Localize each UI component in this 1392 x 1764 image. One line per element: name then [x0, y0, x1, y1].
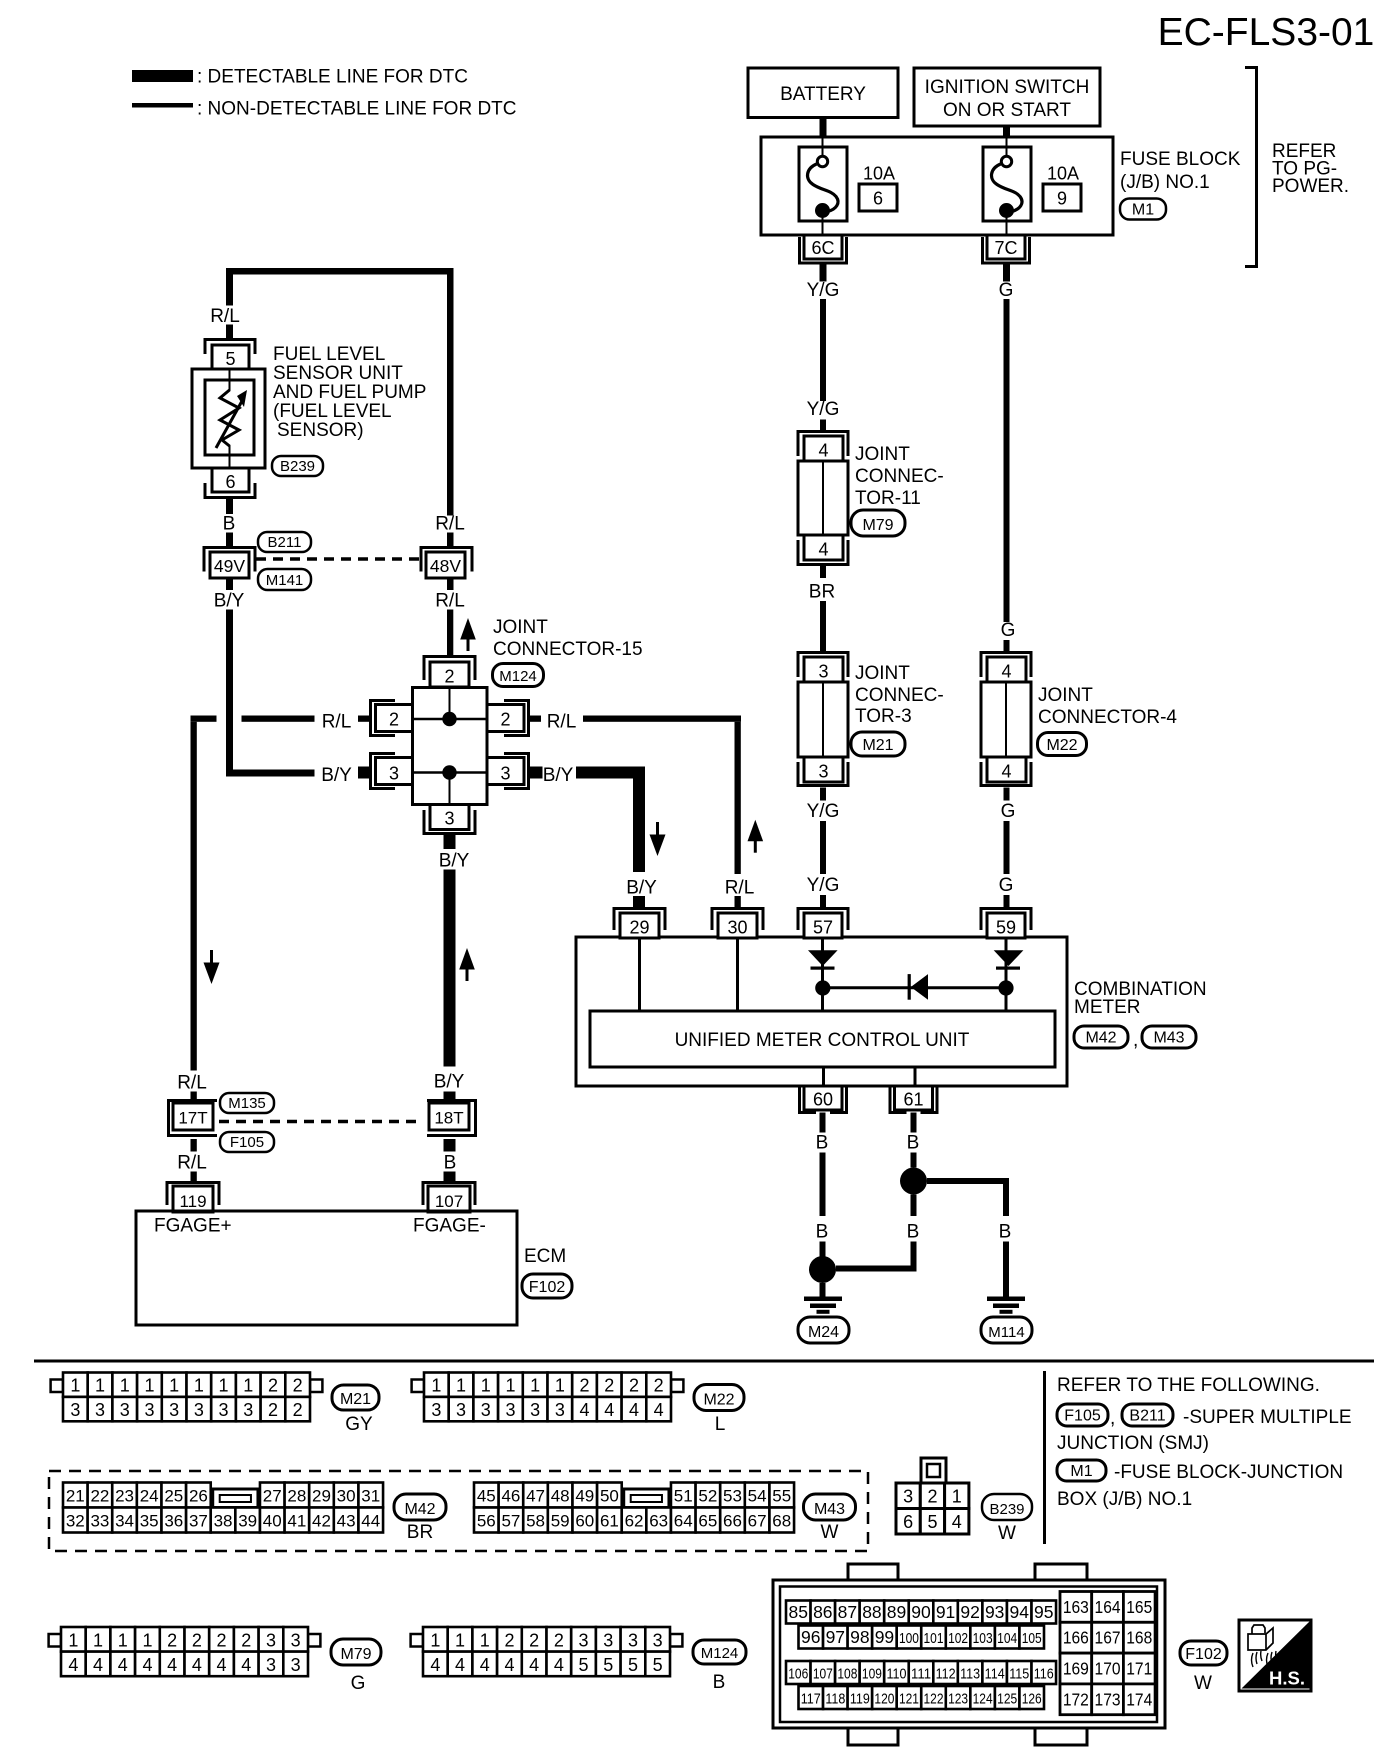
svg-text:119: 119 [179, 1192, 206, 1211]
connector id M1 [1120, 199, 1166, 220]
HS logo box [1239, 1620, 1311, 1691]
svg-text:M124: M124 [701, 1645, 739, 1662]
svg-text:BATTERY: BATTERY [780, 84, 866, 105]
junction dot 59 [998, 980, 1013, 995]
svg-text:2: 2 [293, 1376, 303, 1396]
wire B 60 middle [820, 1153, 826, 1217]
wire battery to fuse block [820, 118, 827, 138]
svg-text:3: 3 [389, 764, 399, 784]
connector 48V [421, 548, 472, 579]
svg-text:1: 1 [118, 1630, 128, 1650]
joint connector-11 top bracket [798, 432, 848, 457]
svg-text:61: 61 [600, 1512, 619, 1531]
svg-text:(J/B) NO.1: (J/B) NO.1 [1120, 172, 1210, 193]
svg-text:2: 2 [268, 1376, 278, 1396]
svg-text:21: 21 [66, 1487, 85, 1506]
svg-text:4: 4 [430, 1655, 440, 1675]
svg-text:88: 88 [862, 1602, 881, 1622]
svg-text:5: 5 [653, 1655, 663, 1675]
meter internal wire 30 [736, 938, 739, 1011]
wire B 61 bottom [911, 1242, 917, 1272]
svg-text:EC-FLS3-01: EC-FLS3-01 [1158, 11, 1375, 54]
svg-text:Y/G: Y/G [807, 280, 840, 301]
svg-text:R/L: R/L [177, 1153, 207, 1174]
wire R/L stub to 17T [191, 1092, 197, 1102]
connector 17T [169, 1101, 218, 1136]
ground symbol M24 [804, 1297, 842, 1314]
joint connector-15 right pin 3 bracket [504, 754, 529, 789]
wire R/L stub to 48V [447, 533, 454, 547]
svg-text:M21: M21 [340, 1391, 371, 1408]
joint connector-11 body [798, 461, 848, 535]
wire label R/L right row [547, 712, 577, 733]
svg-text:5: 5 [225, 349, 235, 369]
svg-text:48V: 48V [430, 556, 461, 576]
connector id F102 ecm [522, 1274, 572, 1298]
svg-text:2: 2 [167, 1630, 177, 1650]
svg-text:120: 120 [874, 1691, 894, 1708]
connector 49V [204, 548, 255, 579]
wire B junction to ground M24 [820, 1283, 826, 1297]
svg-text:93: 93 [985, 1602, 1004, 1622]
svg-text:CONNECTOR-15: CONNECTOR-15 [493, 639, 643, 660]
svg-text:BR: BR [809, 582, 835, 603]
color code BR [407, 1522, 433, 1543]
connector face F102 inner [780, 1587, 1157, 1723]
svg-text:2: 2 [192, 1630, 202, 1650]
color code W b239 [998, 1523, 1016, 1544]
ECM box [136, 1211, 517, 1325]
connector id M22 face [694, 1385, 744, 1411]
svg-text:3: 3 [120, 1400, 130, 1420]
connector 29 [614, 909, 665, 939]
svg-text:106: 106 [788, 1666, 808, 1683]
ignition switch box [914, 68, 1100, 126]
wire B/Y stub below 18T [444, 1139, 456, 1152]
connector id M124 face [693, 1640, 746, 1664]
svg-text:F105: F105 [230, 1134, 264, 1151]
svg-text:METER: METER [1074, 997, 1141, 1018]
svg-text:49V: 49V [214, 556, 245, 576]
svg-text:M79: M79 [862, 517, 893, 534]
svg-text:25: 25 [164, 1487, 183, 1506]
svg-text:2: 2 [927, 1487, 937, 1507]
svg-text:85: 85 [789, 1602, 808, 1622]
svg-text:JOINT: JOINT [1038, 685, 1093, 706]
svg-text:10A: 10A [863, 164, 895, 184]
wire label R/L left row [322, 712, 352, 733]
wire JC-4 bottom stub [1004, 788, 1010, 801]
svg-text:R/L: R/L [435, 514, 465, 535]
svg-text:3: 3 [444, 809, 454, 829]
connector face M42 pin grid [63, 1483, 383, 1533]
svg-text:: DETECTABLE LINE FOR DTC: : DETECTABLE LINE FOR DTC [197, 67, 468, 88]
svg-text:116: 116 [1034, 1666, 1054, 1683]
svg-text:4: 4 [1001, 762, 1011, 782]
joint connector-11 bottom bracket [798, 540, 848, 565]
connector id B239 face [982, 1494, 1032, 1520]
unified meter control unit label [675, 1030, 970, 1051]
arrow down meter 29 [650, 822, 666, 856]
wire label B 61 [907, 1133, 920, 1154]
svg-text:35: 35 [140, 1512, 159, 1531]
svg-text:61: 61 [903, 1090, 923, 1110]
svg-text:4: 4 [167, 1655, 177, 1675]
joint connector-3 pin 3 bottom [804, 757, 843, 782]
svg-text:M43: M43 [1153, 1030, 1184, 1047]
svg-text:38: 38 [214, 1512, 233, 1531]
svg-text:7C: 7C [994, 238, 1017, 258]
svg-text:97: 97 [826, 1627, 845, 1647]
svg-text:F102: F102 [529, 1279, 566, 1296]
svg-text:4: 4 [504, 1655, 514, 1675]
svg-text:3: 3 [555, 1400, 565, 1420]
joint connector-15 bottom pin 3 [424, 805, 475, 834]
svg-text:6: 6 [873, 189, 883, 209]
svg-text:,: , [1133, 1030, 1138, 1051]
connector face M43 pin grid [474, 1483, 794, 1533]
fuse 1 rating 10A [863, 164, 895, 184]
connector id M43 meter [1142, 1026, 1196, 1048]
svg-text:5: 5 [927, 1512, 937, 1532]
HS logo connector icon [1248, 1625, 1277, 1667]
ECM pin label FGAGE- [413, 1216, 486, 1237]
svg-text:3: 3 [70, 1400, 80, 1420]
svg-text:4: 4 [554, 1655, 564, 1675]
wire G stub to JC-4 [1004, 640, 1010, 651]
svg-text:R/L: R/L [177, 1073, 207, 1094]
arrow up FGAGE return [459, 948, 475, 981]
wire B/Y stub to 29 [633, 896, 645, 909]
svg-text:3: 3 [243, 1400, 253, 1420]
svg-text:113: 113 [960, 1666, 980, 1683]
svg-text:109: 109 [862, 1666, 882, 1683]
svg-text:50: 50 [600, 1487, 619, 1506]
title EC-FLS3-01 [1158, 11, 1375, 54]
junction smj text [1057, 1433, 1209, 1454]
svg-text:115: 115 [1009, 1666, 1029, 1683]
svg-text:56: 56 [477, 1512, 496, 1531]
wire label B 60 [816, 1133, 829, 1154]
wire G to meter [1004, 821, 1010, 874]
joint connector-15 body [413, 688, 488, 805]
svg-text:-FUSE BLOCK-JUNCTION: -FUSE BLOCK-JUNCTION [1114, 1462, 1343, 1483]
pin 5 connector [205, 340, 255, 370]
connector id M1 note [1057, 1460, 1106, 1481]
svg-text:M124: M124 [499, 668, 537, 685]
svg-text:G: G [1001, 801, 1016, 822]
joint connector-4 pin 4 top [987, 657, 1026, 682]
vertical separator [1043, 1371, 1046, 1544]
svg-text:F102: F102 [1185, 1646, 1222, 1663]
svg-text:2: 2 [629, 1376, 639, 1396]
svg-text:87: 87 [838, 1602, 857, 1622]
svg-text:46: 46 [501, 1487, 520, 1506]
svg-text:3: 3 [505, 1400, 515, 1420]
svg-text:SENSOR): SENSOR) [277, 420, 364, 441]
svg-text:M141: M141 [266, 572, 304, 589]
joint connector-4 label [1038, 685, 1177, 728]
wire label R/L 48V [435, 591, 465, 612]
svg-text:2: 2 [293, 1400, 303, 1420]
connector id M135 [220, 1093, 274, 1113]
svg-text:126: 126 [1022, 1691, 1042, 1708]
svg-text:TOR-11: TOR-11 [855, 488, 921, 509]
arrow up JC-15 feed [460, 618, 476, 651]
svg-text:B: B [444, 1153, 457, 1174]
svg-text:102: 102 [948, 1630, 968, 1647]
svg-text:40: 40 [263, 1512, 282, 1531]
fuse block box M1 [761, 137, 1113, 235]
svg-text:4: 4 [1001, 662, 1011, 682]
wire B sensor to 49V [226, 499, 233, 514]
svg-text:4: 4 [455, 1655, 465, 1675]
svg-text:B: B [223, 514, 236, 535]
connector id M21 face [332, 1385, 379, 1410]
ground symbol M114 [987, 1297, 1025, 1314]
svg-text:1: 1 [169, 1376, 179, 1396]
svg-text:AND FUEL PUMP: AND FUEL PUMP [273, 382, 426, 403]
connector id B239 sensor [272, 456, 323, 476]
meter internal wire 59 [1005, 938, 1008, 1011]
svg-text:32: 32 [66, 1512, 85, 1531]
connector face F102 bumps [848, 1564, 1087, 1745]
wire R/L stub below 17T [191, 1139, 197, 1152]
svg-text:1: 1 [219, 1376, 229, 1396]
svg-text:2: 2 [389, 710, 399, 730]
svg-text:169: 169 [1063, 1659, 1089, 1679]
combination meter label [1074, 979, 1207, 1018]
svg-text:-SUPER MULTIPLE: -SUPER MULTIPLE [1183, 1407, 1352, 1428]
svg-text:3: 3 [456, 1400, 466, 1420]
connector id M43 face [804, 1494, 856, 1520]
wire B/Y stub to JC-15 pin 3 [358, 767, 370, 779]
svg-text:3: 3 [291, 1655, 301, 1675]
svg-text:43: 43 [337, 1512, 356, 1531]
wire label G top [999, 280, 1014, 301]
svg-text:4: 4 [192, 1655, 202, 1675]
joint connector-4 body [981, 682, 1031, 757]
svg-text:55: 55 [772, 1487, 791, 1506]
svg-text:30: 30 [727, 918, 747, 938]
svg-text:1: 1 [530, 1376, 540, 1396]
wire label B/Y row [321, 765, 352, 786]
svg-text:M22: M22 [703, 1391, 734, 1408]
wire label R/L above 30 [725, 878, 755, 899]
svg-text:3: 3 [500, 764, 510, 784]
svg-text:104: 104 [997, 1630, 1017, 1647]
wire 49V bottom stub [226, 578, 233, 590]
svg-text:FUEL LEVEL: FUEL LEVEL [273, 344, 385, 365]
svg-text:R/L: R/L [210, 306, 240, 327]
svg-text:4: 4 [529, 1655, 539, 1675]
connector id F105 smj [220, 1132, 274, 1152]
svg-text:3: 3 [579, 1630, 589, 1650]
refer to PG-POWER text [1272, 141, 1349, 197]
svg-text:1: 1 [481, 1376, 491, 1396]
wire R/L left vertical to 17T [191, 722, 197, 1071]
legend non-detectable text [197, 99, 517, 120]
svg-text:2: 2 [654, 1376, 664, 1396]
fuse 1 number box 6 [859, 184, 897, 211]
svg-text:123: 123 [948, 1691, 968, 1708]
unified meter control unit box [590, 1011, 1055, 1067]
wire B/Y to meter 29 [576, 767, 645, 873]
connector face M124 pin grid [411, 1627, 683, 1676]
F102 pins 106-116 [786, 1661, 1056, 1684]
svg-text:122: 122 [924, 1691, 944, 1708]
legend detectable text [197, 67, 468, 88]
wire B 60 upper [820, 1113, 826, 1133]
svg-text:M114: M114 [988, 1324, 1024, 1341]
svg-text:1: 1 [431, 1376, 441, 1396]
wire Y/G to meter [820, 821, 826, 874]
svg-text:Y/G: Y/G [807, 801, 840, 822]
svg-text:B: B [907, 1133, 920, 1154]
joint connector-11 pin 4 top [804, 436, 843, 461]
svg-text:92: 92 [960, 1602, 979, 1622]
joint connector-3 body [798, 682, 848, 757]
connector 7C [983, 235, 1030, 263]
svg-text:30: 30 [337, 1487, 356, 1506]
svg-text:G: G [999, 875, 1014, 896]
svg-text:3: 3 [291, 1630, 301, 1650]
fuse 1 10A symbol [808, 137, 838, 235]
wire label R/L sensor [210, 306, 240, 327]
svg-text:167: 167 [1095, 1628, 1121, 1648]
svg-text:FGAGE+: FGAGE+ [154, 1216, 232, 1237]
svg-text:1: 1 [480, 1630, 490, 1650]
joint connector-3 bottom bracket [798, 762, 848, 786]
connector id M124 joint [493, 664, 544, 687]
svg-text:101: 101 [924, 1630, 944, 1647]
svg-text:58: 58 [526, 1512, 545, 1531]
svg-text:1: 1 [70, 1376, 80, 1396]
svg-text:3: 3 [818, 762, 828, 782]
svg-text:FGAGE-: FGAGE- [413, 1216, 486, 1237]
svg-text:JUNCTION (SMJ): JUNCTION (SMJ) [1057, 1433, 1209, 1454]
wire B 61 to junction [911, 1153, 917, 1168]
junction dot M24 branch [809, 1256, 836, 1283]
svg-text:FUSE BLOCK: FUSE BLOCK [1120, 149, 1241, 170]
svg-text:1: 1 [142, 1630, 152, 1650]
svg-text:4: 4 [952, 1512, 962, 1532]
connector id M42 meter [1074, 1026, 1128, 1048]
wire label Y/G 2 [807, 399, 840, 420]
connector id M79 [851, 510, 905, 536]
F102 pins 85-95 [786, 1601, 1056, 1624]
joint connector-15 left pin 3 [376, 758, 413, 785]
svg-text:165: 165 [1126, 1597, 1152, 1617]
svg-text:121: 121 [899, 1691, 919, 1708]
svg-text:52: 52 [698, 1487, 717, 1506]
wire R/L stub to JC-15 left pin 2 [358, 716, 369, 722]
svg-text:CONNEC-: CONNEC- [855, 685, 944, 706]
svg-text:27: 27 [263, 1487, 282, 1506]
wire 6C stub [820, 265, 827, 282]
wire label BR [809, 582, 835, 603]
comma note [1110, 1408, 1115, 1429]
svg-text:67: 67 [748, 1512, 767, 1531]
connector face M22 pin grid [412, 1373, 684, 1422]
svg-text:CONNEC-: CONNEC- [855, 466, 944, 487]
wire B/Y stub from right pin 3 [530, 767, 543, 779]
svg-text:166: 166 [1063, 1628, 1089, 1648]
svg-text:168: 168 [1126, 1628, 1152, 1648]
wire label B/Y above 18T [434, 1072, 465, 1093]
svg-text:M43: M43 [814, 1501, 845, 1518]
svg-text:4: 4 [818, 540, 828, 560]
wire B/Y 49V to JC-15 [226, 610, 315, 777]
svg-text:M21: M21 [862, 737, 893, 754]
svg-text:JOINT: JOINT [855, 444, 910, 465]
fuse 2 box [983, 147, 1031, 221]
svg-text:F105: F105 [1064, 1408, 1101, 1425]
wire B link to M24 junction [836, 1266, 914, 1272]
svg-text:4: 4 [217, 1655, 227, 1675]
connector id M79 face [331, 1639, 381, 1665]
svg-text:UNIFIED METER CONTROL UNIT: UNIFIED METER CONTROL UNIT [675, 1030, 970, 1051]
svg-text:3: 3 [530, 1400, 540, 1420]
ECM label [524, 1246, 566, 1267]
wire R/L stub to 30 [735, 896, 741, 909]
fuel level sensor label [273, 344, 426, 441]
joint connector-11 pin 4 bottom [804, 535, 843, 560]
svg-text:G: G [351, 1673, 366, 1694]
svg-text:B239: B239 [280, 458, 315, 475]
svg-text:173: 173 [1095, 1689, 1121, 1709]
svg-text:108: 108 [837, 1666, 857, 1683]
refer to the following text [1057, 1375, 1320, 1396]
joint connector-4 top bracket [981, 653, 1031, 678]
svg-text:45: 45 [477, 1487, 496, 1506]
svg-text:1: 1 [952, 1487, 962, 1507]
svg-text:M22: M22 [1046, 737, 1077, 754]
diode 57 [808, 950, 838, 969]
svg-text:2: 2 [504, 1630, 514, 1650]
svg-text:2: 2 [444, 667, 454, 687]
svg-text:117: 117 [801, 1691, 821, 1708]
wire label G 4 [999, 875, 1014, 896]
svg-text:2: 2 [554, 1630, 564, 1650]
wire JC-3 bottom stub [820, 788, 826, 801]
svg-text:R/L: R/L [547, 712, 577, 733]
svg-text:174: 174 [1126, 1689, 1152, 1709]
svg-text:5: 5 [628, 1655, 638, 1675]
svg-text:M42: M42 [1085, 1030, 1116, 1047]
svg-text:1: 1 [144, 1376, 154, 1396]
pin 6 connector [205, 468, 255, 498]
svg-text:3: 3 [169, 1400, 179, 1420]
ECM pin label FGAGE+ [154, 1216, 232, 1237]
svg-text:1: 1 [455, 1630, 465, 1650]
color code G [351, 1673, 366, 1694]
wire label Y/G 3 [807, 801, 840, 822]
svg-text:IGNITION SWITCH: IGNITION SWITCH [925, 77, 1090, 98]
svg-text:3: 3 [431, 1400, 441, 1420]
wire R/L 48V to JC-15 [447, 610, 453, 656]
legend detectable line sample [132, 70, 193, 82]
svg-text:53: 53 [723, 1487, 742, 1506]
connector face F102 outer [773, 1580, 1165, 1728]
svg-text:66: 66 [723, 1512, 742, 1531]
connector 30 [712, 909, 763, 939]
svg-text:114: 114 [985, 1666, 1005, 1683]
svg-text:3: 3 [266, 1630, 276, 1650]
wire label B 61 lower [907, 1222, 920, 1243]
joint connector-15 right pin 2 [487, 705, 524, 732]
svg-text:B211: B211 [268, 534, 302, 551]
